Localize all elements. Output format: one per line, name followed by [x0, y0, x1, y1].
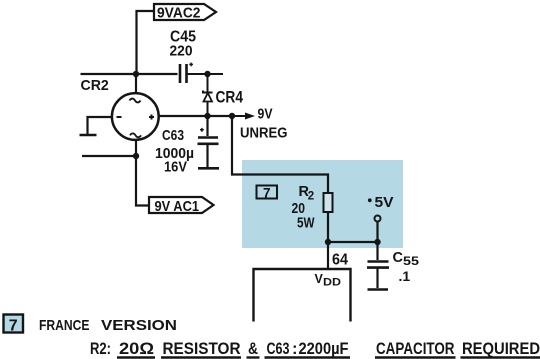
bridge ac mark top [130, 99, 141, 103]
svg-text:2200µF: 2200µF [299, 340, 349, 358]
svg-text:CAPACITOR: CAPACITOR [376, 340, 455, 358]
svg-text::: : [292, 340, 298, 358]
svg-text:5W: 5W [297, 216, 315, 232]
wire to 9V AC1 flag [136, 156, 149, 206]
svg-text:16V: 16V [164, 159, 187, 176]
net flag 9VAC2 [154, 4, 216, 20]
wire 9V node down and right to R2 [232, 116, 328, 193]
node junction at C45 left [133, 71, 139, 77]
bridge plus mark [149, 115, 154, 120]
bridge rectifier CR2 [112, 93, 159, 140]
polarity plus C63 [200, 128, 204, 132]
svg-text:2: 2 [308, 191, 314, 203]
svg-text:RESISTOR: RESISTOR [163, 340, 241, 358]
note underline segments [117, 356, 540, 358]
node junction CR4/C63 [204, 113, 210, 119]
svg-text:C63: C63 [162, 127, 184, 144]
bridge ac mark bottom [130, 133, 141, 137]
svg-text:9V AC1: 9V AC1 [155, 198, 200, 215]
arrow to 9V UNREG [232, 115, 248, 117]
svg-text:&: & [248, 340, 258, 358]
capacitor C55 [367, 262, 389, 268]
wire node to +5V node [328, 241, 378, 243]
svg-text:55: 55 [403, 254, 419, 268]
svg-text:9VAC2: 9VAC2 [157, 5, 201, 22]
France option highlight region [242, 160, 403, 248]
svg-text:.1: .1 [399, 268, 411, 284]
node junction above CR4 [204, 71, 210, 77]
svg-text:64: 64 [332, 252, 348, 269]
svg-text:DD: DD [323, 277, 341, 289]
wire +5V node to C55 [376, 242, 378, 260]
svg-text:C63: C63 [267, 340, 290, 358]
wire C45 to node [187, 73, 208, 75]
svg-text:C: C [393, 250, 404, 266]
node junction bottom [133, 153, 139, 159]
node junction +5V [374, 239, 380, 245]
svg-text:7: 7 [9, 318, 18, 335]
wire bridge right lead to 9V node [159, 115, 233, 117]
wire bridge top lead [135, 74, 137, 94]
svg-text:220: 220 [170, 43, 193, 60]
IC U1 (VDD) [254, 269, 351, 322]
svg-text:VERSION: VERSION [101, 317, 177, 334]
wire pin 64 into IC [327, 242, 329, 269]
wire top horizontal (CR2 output to C45) [81, 73, 178, 75]
ground (bridge left) [80, 134, 97, 137]
wire from 9VAC2 flag down to node [137, 11, 155, 74]
node junction pin64 [325, 239, 331, 245]
wire bridge left lead [88, 117, 113, 134]
option key box 7 (legend) [4, 315, 24, 333]
svg-text:7: 7 [263, 185, 271, 200]
polarity plus C45 [189, 63, 193, 67]
wire +5V terminal to node [376, 222, 378, 243]
svg-text:5V: 5V [375, 195, 394, 211]
capacitor C45 [180, 64, 187, 83]
svg-text:CR2: CR2 [81, 77, 109, 94]
capacitor C63 [206, 116, 208, 136]
svg-text:20Ω: 20Ω [119, 340, 154, 358]
ground (C63) [198, 167, 219, 170]
svg-text:9V: 9V [258, 106, 273, 123]
ground (C55) [368, 288, 389, 291]
svg-text:REQUIRED: REQUIRED [462, 340, 540, 358]
svg-text:FRANCE: FRANCE [39, 317, 90, 334]
svg-text:UNREG: UNREG [240, 125, 288, 142]
option callout box 7 [257, 186, 278, 199]
bridge minus mark [117, 116, 122, 118]
diode CR4 [203, 74, 213, 116]
node junction 9V unreg [229, 113, 235, 119]
svg-text:R2:: R2: [90, 340, 111, 358]
wire R2 to node [327, 212, 329, 242]
net flag 9V AC1 [149, 197, 214, 213]
wire stub left at bottom [82, 155, 136, 157]
wire stub right of node [208, 73, 224, 75]
resistor R2 [324, 193, 333, 212]
svg-text:CR4: CR4 [216, 89, 244, 107]
wire bridge bottom lead [135, 140, 137, 156]
+5V terminal [368, 198, 372, 202]
